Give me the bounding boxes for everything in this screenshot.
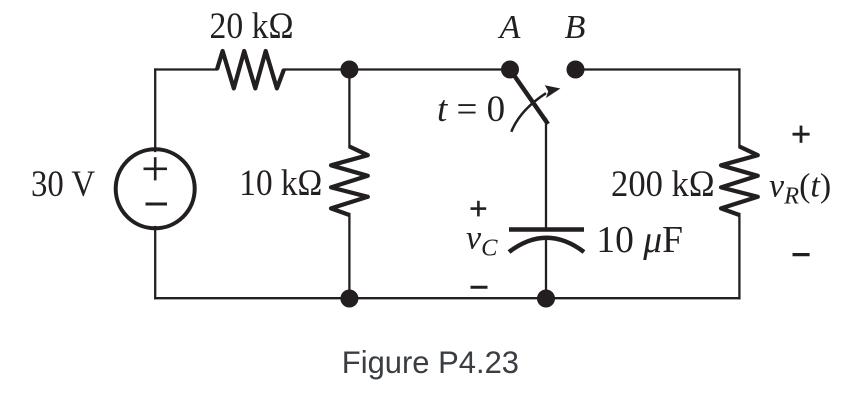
wire middle branch upper	[348, 70, 350, 148]
svg-text:Figure P4.23: Figure P4.23	[342, 344, 519, 380]
wire right rail lower	[738, 214, 740, 298]
svg-text:10 μF: 10 μF	[596, 219, 683, 261]
label vR plus sign	[793, 126, 810, 143]
capacitor C bottom curved plate	[509, 238, 584, 252]
wire top-middle horizontal (resistor to node A)	[284, 68, 510, 70]
svg-text:B: B	[565, 9, 586, 46]
label vC plus sign	[471, 201, 487, 217]
svg-text:30 V: 30 V	[31, 164, 95, 205]
switch arc arrow	[511, 93, 546, 132]
wire middle branch lower	[348, 214, 350, 298]
wire left rail lower	[154, 227, 156, 298]
voltage source VS circle	[116, 149, 195, 228]
node A dot	[501, 61, 519, 79]
label vC minus sign	[471, 286, 488, 289]
svg-text:vR(t): vR(t)	[769, 168, 831, 210]
resistor R 10 kOhm (vertical zigzag)	[331, 147, 368, 216]
wire top-left horizontal	[155, 68, 217, 70]
capacitor C top plate	[509, 227, 584, 232]
node B dot	[567, 61, 585, 79]
svg-text:A: A	[498, 9, 521, 46]
wire capacitor branch lower	[545, 240, 547, 298]
svg-text:t = 0: t = 0	[437, 89, 505, 130]
svg-text:20 kΩ: 20 kΩ	[210, 6, 294, 47]
switch arrowhead	[545, 85, 561, 98]
junction node dot (bottom capacitor)	[537, 290, 555, 308]
junction node dot (top middle)	[340, 61, 358, 79]
wire capacitor branch upper	[545, 119, 547, 229]
wire right rail upper	[738, 70, 740, 148]
svg-text:200 kΩ: 200 kΩ	[611, 164, 715, 205]
junction node dot (bottom middle)	[340, 290, 358, 308]
resistor R 20 kOhm (horizontal zigzag)	[217, 51, 284, 88]
voltage source minus sign	[146, 203, 168, 206]
svg-text:vC: vC	[466, 220, 498, 262]
wire left rail upper	[154, 70, 156, 152]
svg-text:10 kΩ: 10 kΩ	[239, 163, 322, 204]
label vR minus sign	[793, 253, 810, 256]
wire top-right horizontal (node B to right corner)	[576, 68, 740, 70]
voltage source plus sign	[144, 157, 168, 180]
wire bottom rail	[155, 297, 739, 299]
switch blade (from node A)	[510, 70, 548, 125]
resistor R 200 kOhm (vertical zigzag)	[721, 147, 758, 216]
